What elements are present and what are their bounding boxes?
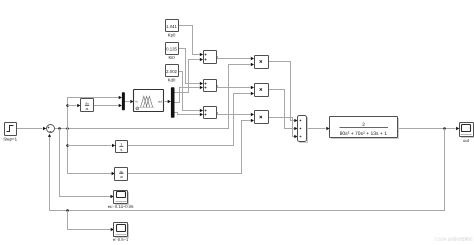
step source Step=1 <box>3 123 17 142</box>
svg-text:out: out <box>158 100 162 104</box>
wire junction to derivative du/dt input <box>66 104 80 108</box>
wire constant Kd0 to sum block S3 input 1 <box>179 72 204 113</box>
svg-text:ec:-0.14~0.06: ec:-0.14~0.06 <box>108 204 134 209</box>
wire feedback from output junction down and back to sum circle <box>48 129 445 212</box>
wire demux out3 to sum block S3 input 2 <box>175 113 204 117</box>
wire e branch down to scope ec <box>60 129 114 199</box>
svg-text:0.135: 0.135 <box>166 46 177 51</box>
wire S2 output to product P2 input 1 <box>216 86 255 90</box>
wire add output to transfer function <box>307 127 330 131</box>
wire step to sum circle <box>17 127 47 131</box>
svg-text:dt: dt <box>120 175 123 179</box>
product block P1 <box>255 56 269 69</box>
product block P2 <box>255 84 269 97</box>
svg-text:du: du <box>85 102 89 106</box>
wire constant Kp0 to sum block S1 input 1 <box>179 26 204 57</box>
sum block S2 <box>204 80 217 92</box>
constant Ki0 = 0.135 <box>166 43 179 60</box>
svg-text:out: out <box>463 138 470 143</box>
constant Kd0 = 2.002 <box>166 65 179 83</box>
scope ec:-0.14~0.06 <box>108 191 134 209</box>
wire S1 output to product P1 input 1 <box>216 57 255 61</box>
sum block S1 <box>204 51 217 64</box>
transfer function plant 2/(80s^3+70s^2+13s+1) <box>330 117 399 139</box>
derivative block du/dt upper <box>81 99 94 112</box>
derivative block du/dt lower <box>115 168 128 181</box>
scope out <box>460 123 474 143</box>
wire e: sum output right, rises at x=228 to product P1 input 2 <box>55 63 255 130</box>
demux block <box>171 87 175 117</box>
svg-text:2.002: 2.002 <box>166 69 177 74</box>
wire mux output to fuzzy controller input <box>125 100 134 104</box>
wire e branch up to mux input 1 <box>68 96 122 129</box>
svg-text:CSDN @自动控制论: CSDN @自动控制论 <box>435 237 474 242</box>
mux block <box>122 92 125 110</box>
wire derivative output to mux input 2 <box>94 104 122 108</box>
svg-text:dt: dt <box>86 107 89 111</box>
wire transfer function output to scope out, with junction <box>399 127 460 131</box>
wire second derivative output rises at x=241 to product P3 input 2 <box>128 119 255 174</box>
svg-text:in: in <box>135 100 138 104</box>
svg-text:s: s <box>120 148 122 152</box>
svg-text:1: 1 <box>120 142 122 146</box>
product block P3 <box>255 111 269 124</box>
wire P1 output to add block input 1 <box>268 62 298 123</box>
svg-text:80s³ + 70s² + 13s + 1: 80s³ + 70s² + 13s + 1 <box>340 131 388 137</box>
wire S3 output to product P3 input 1 <box>216 113 255 117</box>
wire P3 output to add block input 3 <box>268 118 298 139</box>
wire constant Ki0 to sum block S2 input 1 <box>179 49 204 86</box>
scope e:-0.5~1 <box>113 223 129 242</box>
wire P2 output to add block input 2 <box>268 90 298 131</box>
add block (3-input sum) <box>298 116 308 143</box>
svg-text:Kd0: Kd0 <box>168 78 176 83</box>
integrator block 1/s <box>116 141 128 153</box>
wire demux out1 to sum block S1 input 2 <box>175 58 204 93</box>
svg-text:Step=1: Step=1 <box>3 137 17 142</box>
wire fuzzy output to demux input <box>165 100 171 104</box>
sum block S3 <box>204 107 217 119</box>
constant Kp0 = 1.041 <box>166 20 179 38</box>
wire e branch down to second derivative <box>66 129 115 176</box>
fuzzy logic controller block <box>134 90 164 112</box>
svg-text:1.041: 1.041 <box>166 24 177 29</box>
svg-text:Ki0: Ki0 <box>168 55 175 60</box>
wire demux out2 to sum block S2 input 2 <box>175 86 204 103</box>
svg-text:e:-0.5~1: e:-0.5~1 <box>113 237 129 242</box>
wire feedback branch to scope e <box>68 211 114 232</box>
wire e to integrator input <box>68 144 116 148</box>
sum circle comparator <box>47 125 55 133</box>
wire integrator output rises at x=233 to product P2 input 2 <box>128 92 255 146</box>
svg-text:Kp0: Kp0 <box>168 33 176 38</box>
